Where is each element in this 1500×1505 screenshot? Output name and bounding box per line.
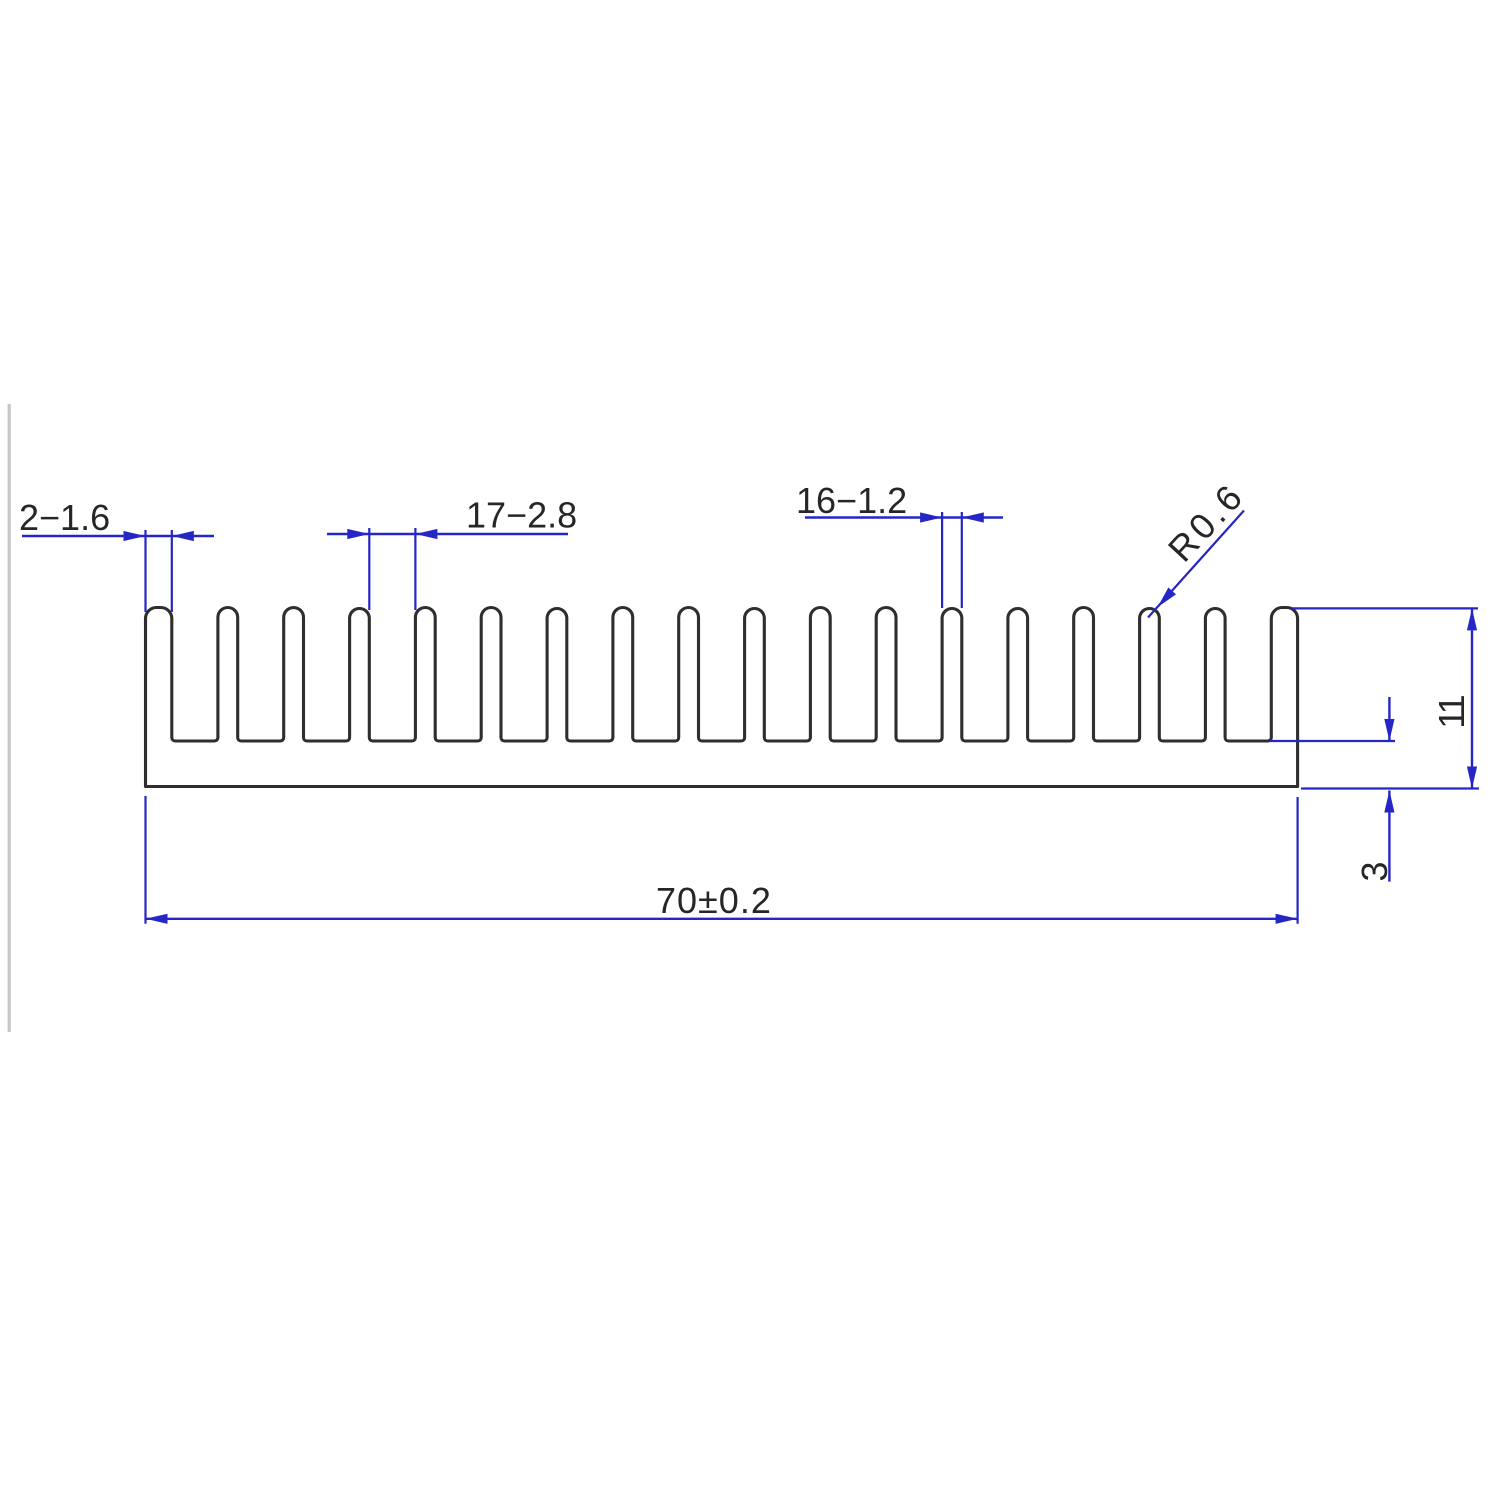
svg-text:11: 11 (1431, 695, 1472, 728)
leader R0.6: leader line (1148, 511, 1244, 618)
dimension 11: extension lines (1292, 607, 1478, 609)
heatsink profile outline (146, 608, 1298, 787)
dimension 3: dimension lines (1388, 697, 1390, 741)
dimension 70±0.2: dimension line (146, 918, 1298, 920)
svg-text:3: 3 (1354, 861, 1395, 881)
dimension 2-1.6: extension lines (144, 530, 146, 612)
svg-text:17−2.8: 17−2.8 (466, 494, 577, 535)
dimension 2-1.6: dimension line (22, 535, 214, 537)
dimension 16-1.2: dimension line (805, 516, 1003, 518)
dimension 3: extension line at fin root (1270, 740, 1395, 742)
dimension 17-2.8: extension lines (368, 528, 370, 610)
dimension 70±0.2: extension lines (144, 796, 146, 924)
scan border line (8, 404, 11, 1032)
svg-text:70±0.2: 70±0.2 (656, 880, 772, 921)
dimension 17-2.8: dimension line (327, 533, 568, 535)
leader R0.6: arrowhead (1158, 588, 1177, 608)
svg-text:16−1.2: 16−1.2 (796, 480, 907, 521)
dimension 16-1.2: extension lines (941, 512, 943, 608)
svg-text:2−1.6: 2−1.6 (19, 497, 110, 538)
dimension 11: dimension line (1471, 608, 1473, 788)
